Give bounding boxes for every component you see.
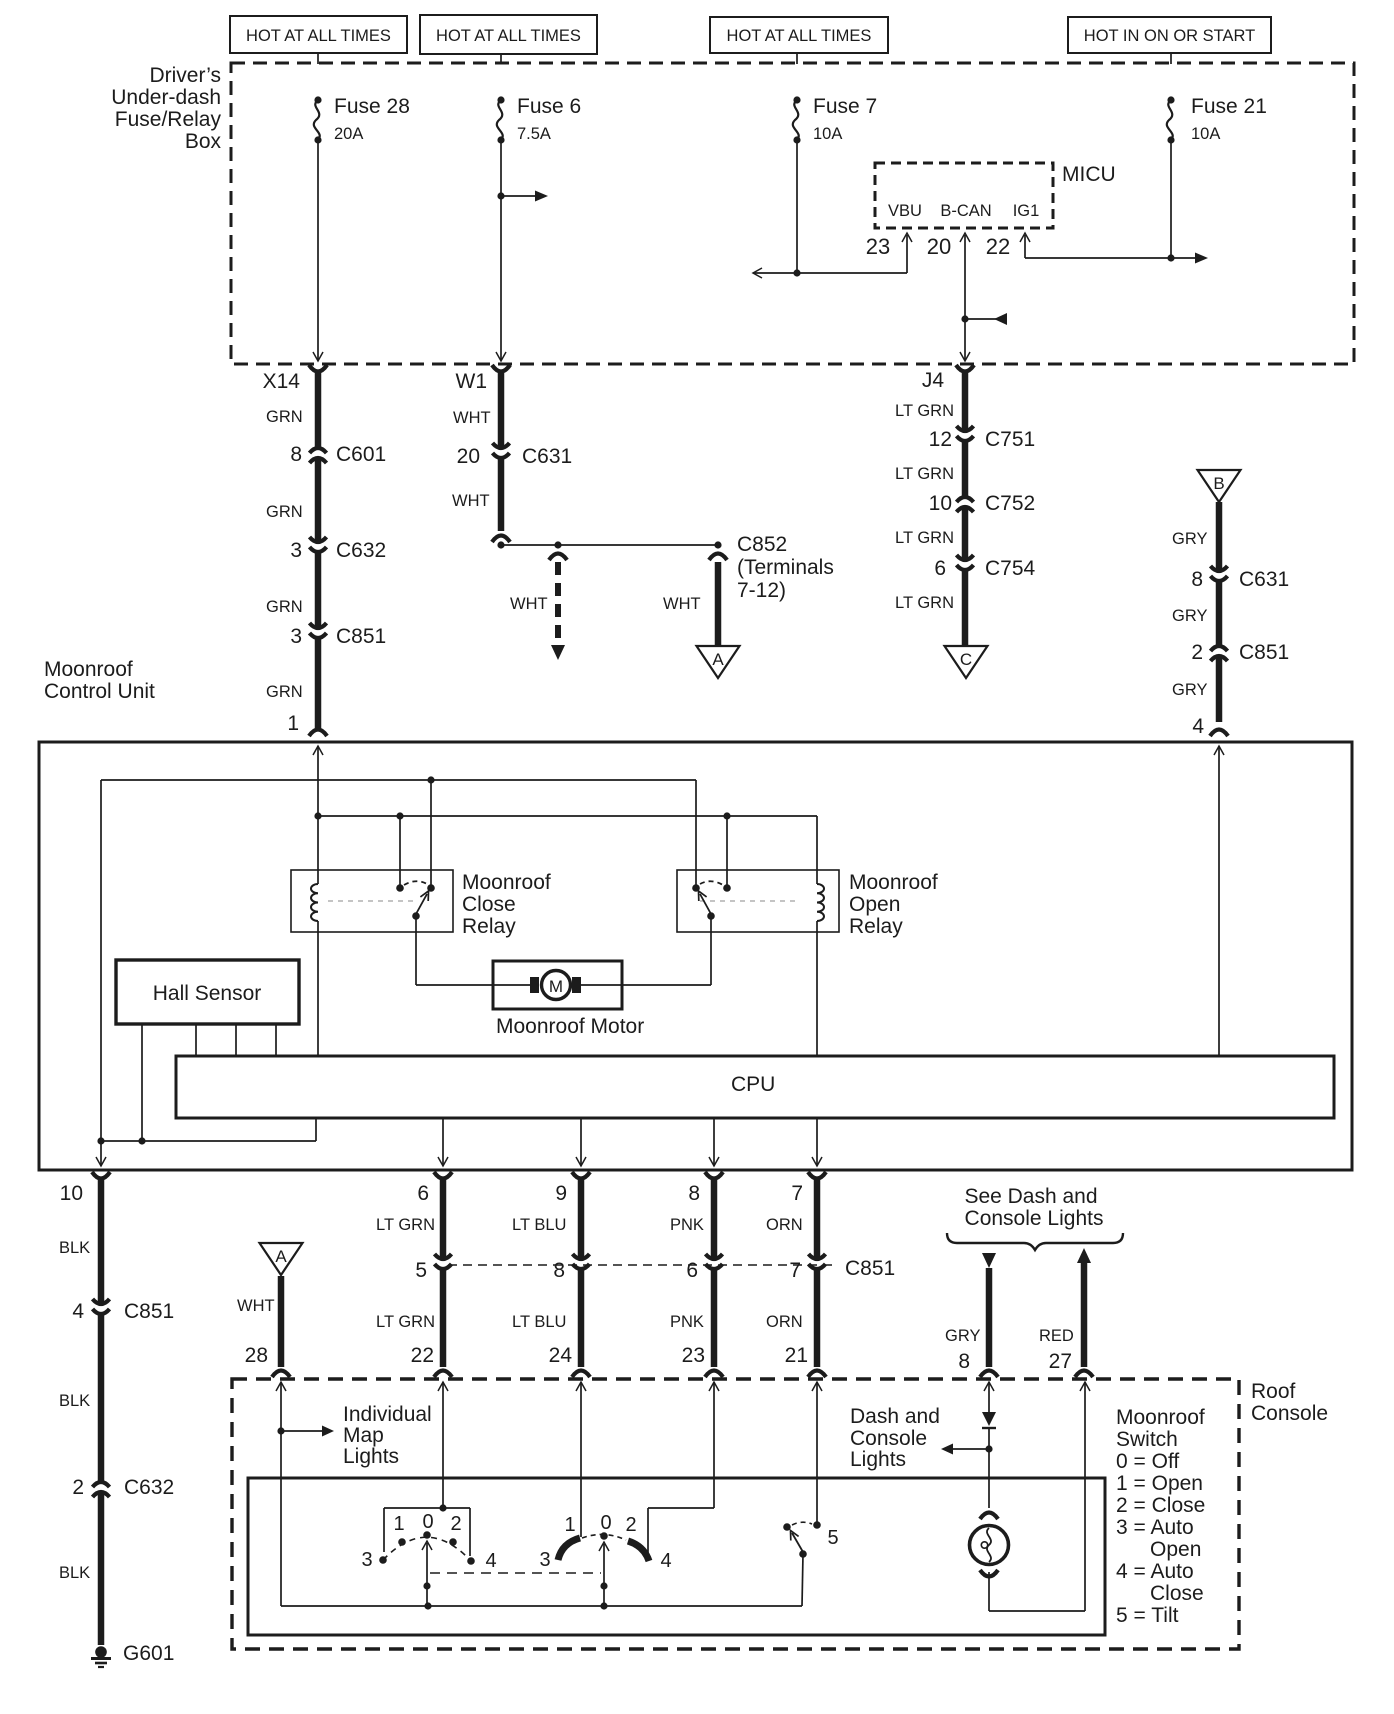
wire ORN pin 7 to console pin 21 bbox=[766, 1178, 826, 1377]
power source box HOT AT ALL TIMES (fuse 7) bbox=[710, 17, 888, 64]
svg-text:10: 10 bbox=[60, 1182, 83, 1205]
connector C851 pin 7 (ORN column) bbox=[789, 1254, 825, 1282]
svg-text:8: 8 bbox=[290, 443, 302, 466]
control unit pin 6 bbox=[417, 1172, 452, 1205]
svg-text:5 = Tilt: 5 = Tilt bbox=[1116, 1604, 1179, 1627]
page reference triangle A (bottom) bbox=[260, 1243, 303, 1275]
svg-text:2: 2 bbox=[1191, 641, 1203, 664]
wire console pin 22 to map light switch bbox=[438, 1382, 448, 1512]
wire hall sensor output 4 bbox=[275, 1024, 277, 1056]
fuse 7 10A bbox=[793, 95, 877, 144]
wire WHT A to roof console pin 28 bbox=[237, 1276, 290, 1377]
svg-text:Roof: Roof bbox=[1251, 1380, 1296, 1403]
wire fuse 7 to MICU VBU pin 23 bbox=[753, 140, 912, 278]
svg-text:10A: 10A bbox=[813, 125, 842, 143]
svg-text:C631: C631 bbox=[522, 445, 572, 468]
svg-text:Open: Open bbox=[849, 893, 900, 916]
wire MICU IG1 pin 22 to fuse 21 bbox=[1020, 140, 1208, 264]
svg-text:GRN: GRN bbox=[266, 408, 303, 426]
svg-text:Relay: Relay bbox=[462, 915, 516, 938]
svg-text:C851: C851 bbox=[124, 1300, 174, 1323]
svg-text:Console: Console bbox=[850, 1427, 927, 1450]
lamp console light bulb bbox=[970, 1513, 1009, 1577]
svg-text:10: 10 bbox=[929, 492, 952, 515]
svg-text:C851: C851 bbox=[845, 1257, 895, 1280]
wire net B to open relay coil and CPU bbox=[817, 816, 824, 1056]
wire W1 to C852 splice bbox=[492, 536, 722, 549]
power source box HOT AT ALL TIMES (fuse 6) bbox=[420, 15, 597, 64]
svg-text:C: C bbox=[960, 650, 972, 669]
svg-text:LT GRN: LT GRN bbox=[895, 402, 954, 420]
svg-text:Moonroof: Moonroof bbox=[44, 658, 133, 681]
svg-text:GRN: GRN bbox=[266, 598, 303, 616]
svg-text:2: 2 bbox=[450, 1513, 461, 1535]
svg-text:BLK: BLK bbox=[59, 1239, 90, 1257]
svg-text:Moonroof: Moonroof bbox=[849, 871, 938, 894]
wire CPU to pin 6 bbox=[438, 1118, 448, 1166]
svg-text:HOT AT ALL TIMES: HOT AT ALL TIMES bbox=[727, 27, 872, 45]
svg-text:HOT AT ALL TIMES: HOT AT ALL TIMES bbox=[246, 27, 391, 45]
MICU pin 22 label bbox=[986, 234, 1010, 259]
svg-text:ORN: ORN bbox=[766, 1216, 803, 1234]
svg-text:C632: C632 bbox=[336, 539, 386, 562]
svg-text:3 = Auto: 3 = Auto bbox=[1116, 1516, 1194, 1539]
connector C851 pin 8 (LT BLU column) bbox=[553, 1254, 589, 1282]
svg-text:Close: Close bbox=[1150, 1582, 1204, 1605]
svg-text:23: 23 bbox=[866, 234, 890, 259]
svg-text:LT GRN: LT GRN bbox=[895, 529, 954, 547]
svg-text:GRN: GRN bbox=[266, 503, 303, 521]
svg-text:1: 1 bbox=[564, 1514, 575, 1536]
Roof Console enclosure bbox=[232, 1379, 1328, 1649]
svg-text:C632: C632 bbox=[124, 1476, 174, 1499]
wire LT GRN pin 6 to console pin 22 bbox=[376, 1178, 452, 1377]
control unit pin 10 bbox=[60, 1172, 110, 1205]
svg-text:HOT AT ALL TIMES: HOT AT ALL TIMES bbox=[436, 27, 581, 45]
svg-text:A: A bbox=[275, 1247, 287, 1266]
switch S2 wiper bbox=[599, 1542, 609, 1606]
switch S1 rotary contacts bbox=[361, 1511, 496, 1572]
svg-text:GRY: GRY bbox=[945, 1327, 980, 1345]
svg-text:4: 4 bbox=[1192, 715, 1204, 738]
svg-text:22: 22 bbox=[986, 234, 1010, 259]
svg-text:8: 8 bbox=[553, 1259, 565, 1282]
wire left internal ground branch bbox=[96, 780, 106, 1166]
wire pin 1 to close relay coil and CPU bbox=[311, 746, 323, 1056]
wire internal net B (coil supply) bbox=[318, 812, 817, 819]
connector C632 pin 2 (BLK column) bbox=[72, 1476, 174, 1499]
svg-text:RED: RED bbox=[1039, 1327, 1074, 1345]
label Individual Map Lights bbox=[343, 1403, 432, 1468]
svg-text:PNK: PNK bbox=[670, 1313, 704, 1331]
svg-text:Box: Box bbox=[185, 130, 222, 153]
connector C851 pin 4 (BLK column) bbox=[72, 1299, 174, 1323]
wire console pin 28 to switch common bbox=[276, 1382, 334, 1606]
switch assembly box bbox=[248, 1478, 1105, 1635]
svg-text:LT GRN: LT GRN bbox=[376, 1313, 435, 1331]
Hall Sensor bbox=[116, 960, 299, 1024]
svg-text:Relay: Relay bbox=[849, 915, 903, 938]
wire close relay to motor bbox=[416, 916, 532, 985]
wire RED console lamp output pin 27 bbox=[1039, 1248, 1093, 1377]
svg-text:7-12): 7-12) bbox=[737, 579, 786, 602]
svg-text:Console Lights: Console Lights bbox=[965, 1207, 1104, 1230]
svg-text:Fuse 28: Fuse 28 bbox=[334, 95, 410, 118]
svg-text:7: 7 bbox=[791, 1182, 803, 1205]
svg-text:3: 3 bbox=[539, 1549, 550, 1571]
svg-text:23: 23 bbox=[682, 1344, 705, 1367]
svg-text:C751: C751 bbox=[985, 428, 1035, 451]
page reference triangle C bbox=[945, 646, 988, 678]
svg-text:Moonroof: Moonroof bbox=[1116, 1406, 1205, 1429]
MICU module box bbox=[875, 163, 1116, 228]
motor Moonroof Motor bbox=[493, 961, 644, 1038]
svg-text:HOT IN ON OR START: HOT IN ON OR START bbox=[1084, 27, 1255, 45]
svg-text:8: 8 bbox=[958, 1350, 970, 1373]
wire W1 WHT bbox=[452, 371, 501, 531]
connector C631 pin 20 bbox=[457, 443, 573, 468]
CPU block bbox=[176, 1056, 1334, 1118]
label See Dash and Console Lights bbox=[947, 1185, 1123, 1250]
svg-text:Fuse/Relay: Fuse/Relay bbox=[115, 108, 222, 131]
svg-text:4: 4 bbox=[660, 1550, 671, 1572]
svg-text:Close: Close bbox=[462, 893, 516, 916]
wire switch common return line bbox=[281, 1602, 802, 1609]
svg-text:2 = Close: 2 = Close bbox=[1116, 1494, 1205, 1517]
svg-text:24: 24 bbox=[549, 1344, 573, 1367]
wire console pin 21 to tilt switch bbox=[812, 1382, 822, 1529]
fuse 6 7.5A bbox=[497, 95, 581, 144]
svg-text:2: 2 bbox=[72, 1476, 84, 1499]
svg-text:3: 3 bbox=[290, 625, 302, 648]
power source box HOT AT ALL TIMES (fuse 28) bbox=[230, 16, 407, 64]
svg-text:LT GRN: LT GRN bbox=[895, 594, 954, 612]
svg-text:7: 7 bbox=[789, 1259, 801, 1282]
switch tilt contact 5 bbox=[783, 1522, 838, 1606]
connector W1 bbox=[456, 365, 511, 393]
wire console pin 23 to switch contact 4 bbox=[648, 1382, 719, 1560]
wire stub WHT dashed to other circuit bbox=[510, 554, 567, 661]
fuse 28 20A bbox=[314, 95, 410, 144]
svg-text:5: 5 bbox=[415, 1259, 427, 1282]
wire console pin 24 to moonroof switch bbox=[576, 1382, 586, 1537]
svg-text:Moonroof: Moonroof bbox=[462, 871, 551, 894]
svg-text:6: 6 bbox=[686, 1259, 698, 1282]
wire fuse 28 to X14 bbox=[313, 140, 323, 361]
relay Moonroof Close Relay bbox=[291, 870, 551, 938]
svg-text:Hall Sensor: Hall Sensor bbox=[153, 982, 262, 1005]
svg-text:6: 6 bbox=[417, 1182, 429, 1205]
svg-text:Fuse 21: Fuse 21 bbox=[1191, 95, 1267, 118]
svg-text:4: 4 bbox=[72, 1300, 84, 1323]
svg-text:21: 21 bbox=[785, 1344, 808, 1367]
svg-text:12: 12 bbox=[929, 428, 952, 451]
svg-text:GRY: GRY bbox=[1172, 681, 1207, 699]
svg-text:3: 3 bbox=[290, 539, 302, 562]
svg-text:8: 8 bbox=[688, 1182, 700, 1205]
wire CPU to pin 9 bbox=[576, 1118, 586, 1166]
connector C851 dashed gang line bbox=[448, 1257, 895, 1280]
svg-text:27: 27 bbox=[1049, 1350, 1072, 1373]
svg-text:7.5A: 7.5A bbox=[517, 125, 551, 143]
wire net A to close relay common bbox=[430, 780, 432, 885]
wire hall sensor output 1 bbox=[141, 1024, 143, 1141]
MICU pin 20 label bbox=[927, 234, 951, 259]
wire lamp return to console pin 27 bbox=[989, 1382, 1090, 1611]
page reference triangle B bbox=[1198, 470, 1241, 502]
svg-text:6: 6 bbox=[934, 557, 946, 580]
svg-text:Dash and: Dash and bbox=[850, 1405, 940, 1428]
svg-text:LT GRN: LT GRN bbox=[895, 465, 954, 483]
svg-text:5: 5 bbox=[827, 1527, 838, 1549]
wire MICU B-CAN pin 20 to J4 bbox=[960, 233, 1007, 361]
wire BLK ground lead bbox=[59, 1178, 101, 1645]
wire CPU to pin 7 bbox=[812, 1118, 822, 1166]
connector C851 pin 6 (PNK column) bbox=[686, 1254, 722, 1282]
svg-text:See Dash and: See Dash and bbox=[964, 1185, 1097, 1208]
svg-text:VBU: VBU bbox=[888, 202, 922, 220]
svg-text:LT BLU: LT BLU bbox=[512, 1313, 566, 1331]
control unit pin 9 bbox=[555, 1172, 590, 1205]
connector C851 pin 3 (GRN column) bbox=[290, 623, 386, 648]
wire CPU ground return bbox=[101, 1118, 316, 1145]
wire PNK pin 8 to console pin 23 bbox=[670, 1178, 723, 1377]
svg-text:C851: C851 bbox=[336, 625, 386, 648]
svg-text:W1: W1 bbox=[456, 370, 488, 393]
svg-text:BLK: BLK bbox=[59, 1564, 90, 1582]
svg-text:J4: J4 bbox=[922, 369, 945, 392]
wire open relay to motor bbox=[580, 916, 711, 985]
svg-text:WHT: WHT bbox=[510, 595, 548, 613]
svg-text:Lights: Lights bbox=[850, 1448, 906, 1471]
svg-text:1 = Open: 1 = Open bbox=[1116, 1472, 1203, 1495]
page reference triangle A (top) bbox=[697, 646, 740, 678]
fuse 21 10A bbox=[1167, 95, 1267, 144]
svg-text:4: 4 bbox=[485, 1550, 496, 1572]
svg-text:MICU: MICU bbox=[1062, 163, 1116, 186]
wire net B to close relay contact bbox=[399, 816, 401, 885]
svg-text:X14: X14 bbox=[263, 370, 301, 393]
svg-text:WHT: WHT bbox=[663, 595, 701, 613]
svg-text:1: 1 bbox=[393, 1513, 404, 1535]
svg-text:9: 9 bbox=[555, 1182, 567, 1205]
svg-text:Under-dash: Under-dash bbox=[111, 86, 221, 109]
svg-text:PNK: PNK bbox=[670, 1216, 704, 1234]
svg-text:M: M bbox=[549, 977, 563, 996]
svg-text:1: 1 bbox=[287, 712, 299, 735]
switch S2 rotary contacts bbox=[539, 1512, 671, 1572]
connector C752 pin 10 bbox=[929, 492, 1036, 515]
svg-text:Moonroof Motor: Moonroof Motor bbox=[496, 1015, 644, 1038]
svg-text:Switch: Switch bbox=[1116, 1428, 1178, 1451]
switch mechanical link bbox=[430, 1572, 601, 1574]
wire console pin 8 to lamp with diode bbox=[941, 1382, 996, 1508]
label Moonroof Switch legend bbox=[1116, 1406, 1205, 1627]
wire fuse 6 to W1 with branch arrow bbox=[496, 140, 548, 361]
svg-text:WHT: WHT bbox=[237, 1297, 275, 1315]
svg-text:10A: 10A bbox=[1191, 125, 1220, 143]
connector J4 bbox=[922, 365, 974, 392]
svg-text:Driver’s: Driver’s bbox=[149, 64, 221, 87]
svg-text:(Terminals: (Terminals bbox=[737, 556, 834, 579]
wire J4 LT GRN to page reference C bbox=[895, 371, 965, 645]
svg-text:Fuse 6: Fuse 6 bbox=[517, 95, 581, 118]
wire CPU to pin 8 bbox=[709, 1118, 719, 1166]
svg-text:20: 20 bbox=[457, 445, 480, 468]
svg-text:C754: C754 bbox=[985, 557, 1036, 580]
ground G601 bbox=[91, 1642, 174, 1667]
svg-text:GRY: GRY bbox=[1172, 607, 1207, 625]
connector X14 bbox=[263, 365, 327, 393]
wire B GRY to moonroof control unit pin 4 bbox=[1172, 502, 1219, 722]
svg-text:C601: C601 bbox=[336, 443, 386, 466]
svg-text:C631: C631 bbox=[1239, 568, 1289, 591]
svg-text:4 = Auto: 4 = Auto bbox=[1116, 1560, 1194, 1583]
svg-text:3: 3 bbox=[361, 1549, 372, 1571]
control unit pin 1 label bbox=[287, 712, 327, 736]
svg-text:B-CAN: B-CAN bbox=[940, 202, 991, 220]
svg-text:Console: Console bbox=[1251, 1402, 1328, 1425]
svg-text:C852: C852 bbox=[737, 533, 787, 556]
svg-text:22: 22 bbox=[411, 1344, 434, 1367]
svg-text:20: 20 bbox=[927, 234, 951, 259]
svg-text:ORN: ORN bbox=[766, 1313, 803, 1331]
connector C601 pin 8 bbox=[290, 443, 386, 466]
wire hall sensor output 3 bbox=[235, 1024, 237, 1056]
svg-text:A: A bbox=[712, 650, 724, 669]
control unit pin 4 label bbox=[1192, 715, 1228, 738]
svg-text:BLK: BLK bbox=[59, 1392, 90, 1410]
connector C751 pin 12 bbox=[929, 426, 1036, 451]
wire internal net A (switch supply) bbox=[101, 776, 696, 783]
map light switch bracket bbox=[384, 1508, 470, 1556]
relay Moonroof Open Relay bbox=[677, 870, 938, 938]
control unit pin 7 bbox=[791, 1172, 826, 1205]
switch S1 wiper bbox=[422, 1541, 432, 1606]
svg-text:0: 0 bbox=[422, 1511, 433, 1533]
svg-text:Lights: Lights bbox=[343, 1445, 399, 1468]
svg-text:Control Unit: Control Unit bbox=[44, 680, 155, 703]
svg-text:0 = Off: 0 = Off bbox=[1116, 1450, 1179, 1473]
svg-text:2: 2 bbox=[625, 1514, 636, 1536]
power source box HOT IN ON OR START (fuse 21) bbox=[1068, 17, 1271, 64]
svg-text:28: 28 bbox=[245, 1344, 268, 1367]
svg-text:B: B bbox=[1213, 474, 1224, 493]
wire net A to open relay common bbox=[695, 780, 697, 885]
connector C852 wire WHT to page reference A bbox=[663, 533, 834, 645]
wire LT BLU pin 9 to console pin 24 bbox=[512, 1178, 590, 1377]
control unit pin 8 bbox=[688, 1172, 723, 1205]
connector C851 pin 2 (GRY column) bbox=[1191, 641, 1289, 664]
connector C632 pin 3 (GRN column) bbox=[290, 537, 386, 562]
Moonroof Control Unit enclosure bbox=[39, 658, 1352, 1170]
label Dash and Console Lights bbox=[850, 1405, 940, 1471]
wire net B to open relay contact bbox=[726, 816, 728, 885]
svg-text:20A: 20A bbox=[334, 125, 363, 143]
Driver's Under-dash Fuse/Relay Box enclosure bbox=[111, 63, 1354, 364]
svg-text:C752: C752 bbox=[985, 492, 1035, 515]
wire X14 GRN to moonroof control unit pin 1 bbox=[266, 371, 318, 728]
svg-text:G601: G601 bbox=[123, 1642, 174, 1665]
svg-text:LT BLU: LT BLU bbox=[512, 1216, 566, 1234]
svg-text:Map: Map bbox=[343, 1424, 384, 1447]
svg-text:IG1: IG1 bbox=[1013, 202, 1040, 220]
svg-text:WHT: WHT bbox=[453, 409, 491, 427]
svg-text:CPU: CPU bbox=[731, 1073, 775, 1096]
svg-text:0: 0 bbox=[600, 1512, 611, 1534]
svg-text:Individual: Individual bbox=[343, 1403, 432, 1426]
connector C851 pin 5 (LT GRN column) bbox=[415, 1254, 451, 1282]
connector C754 pin 6 bbox=[934, 555, 1035, 580]
svg-text:8: 8 bbox=[1191, 568, 1203, 591]
wire hall sensor output 2 bbox=[195, 1024, 197, 1056]
MICU pin 23 label bbox=[866, 234, 890, 259]
svg-text:GRY: GRY bbox=[1172, 530, 1207, 548]
svg-text:Fuse 7: Fuse 7 bbox=[813, 95, 877, 118]
svg-text:WHT: WHT bbox=[452, 492, 490, 510]
svg-text:GRN: GRN bbox=[266, 683, 303, 701]
svg-text:C851: C851 bbox=[1239, 641, 1289, 664]
wire pin 4 to CPU bbox=[1214, 746, 1224, 1056]
svg-text:LT GRN: LT GRN bbox=[376, 1216, 435, 1234]
wire GRY dash lights feed to console pin 8 bbox=[945, 1253, 998, 1377]
connector C631 pin 8 (GRY column) bbox=[1191, 566, 1289, 591]
svg-text:Open: Open bbox=[1150, 1538, 1201, 1561]
